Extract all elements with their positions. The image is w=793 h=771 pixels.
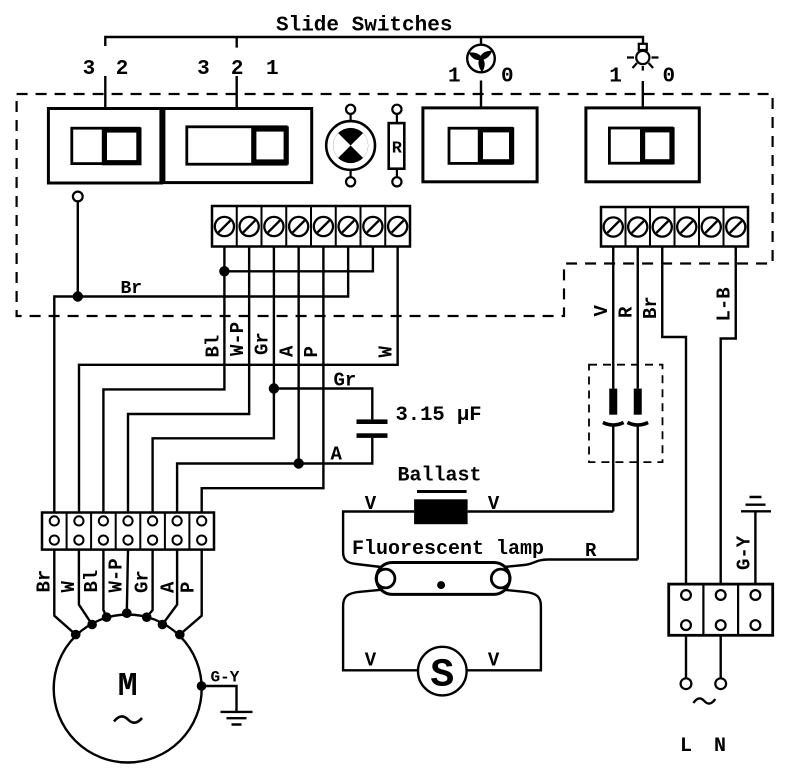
svg-text:A: A: [277, 345, 299, 357]
svg-text:0: 0: [501, 66, 514, 89]
wire: lamp bottom-left to starter: [343, 590, 418, 671]
wire: L-B net (TB2-6 to TB4): [721, 247, 736, 585]
wire: Bl net: [103, 247, 224, 513]
fan icon: [467, 45, 495, 73]
junction: Gr capacitor tap: [269, 383, 279, 393]
wire: A net: [177, 247, 299, 513]
wire: S1 output down to Br: [77, 201, 79, 296]
terminal block TB1: [212, 206, 410, 247]
svg-text:Gr: Gr: [131, 570, 153, 593]
label: fan switch positions 1 0: [448, 66, 514, 89]
slide switch S1: [48, 109, 161, 184]
label: AC supply ~: [693, 698, 715, 703]
motor M1: [54, 615, 202, 763]
node: S1 output open circle: [73, 192, 83, 202]
svg-text:Gr: Gr: [334, 370, 357, 392]
svg-text:W: W: [376, 346, 398, 358]
svg-text:L: L: [680, 735, 692, 758]
terminal strip TB4 (mains): [669, 584, 773, 635]
svg-text:W-P: W-P: [105, 558, 127, 592]
wire: A lead to motor: [162, 550, 177, 625]
screws TB2: [604, 217, 746, 236]
wire: selector bus: [105, 37, 643, 48]
svg-text:Br: Br: [34, 570, 56, 593]
svg-text:0: 0: [662, 66, 675, 89]
svg-text:3: 3: [197, 58, 210, 81]
wire: V net (TB2-1 down): [612, 247, 614, 512]
svg-text:Gr: Gr: [252, 332, 274, 355]
svg-text:2: 2: [116, 58, 129, 81]
node: N open circle: [715, 678, 726, 689]
svg-text:V: V: [591, 305, 613, 317]
svg-text:L-B: L-B: [714, 287, 736, 321]
resistor R: [389, 105, 405, 187]
svg-text:G-Y: G-Y: [211, 669, 240, 687]
wire: S1 selector tick: [104, 76, 106, 109]
svg-text:M: M: [118, 668, 138, 705]
screws TB1: [215, 217, 407, 236]
svg-text:1: 1: [448, 66, 461, 89]
wire: W lead to motor: [79, 550, 92, 625]
svg-text:P: P: [177, 582, 199, 593]
ground: motor earth: [221, 712, 253, 725]
indicator lamp H1: [326, 105, 375, 187]
labels: V V (ballast): [365, 493, 500, 515]
enclosure: hood unit dashed outline: [17, 94, 773, 316]
wire: W-P lead to motor: [127, 550, 128, 614]
junction: A capacitor tap: [293, 458, 303, 468]
wire: G-Y to ground: [202, 686, 237, 712]
label: lamp switch positions 1 0: [609, 66, 675, 89]
wire: ballast left to lamp top-left: [343, 512, 414, 568]
svg-text:Bl: Bl: [81, 570, 103, 593]
starter S: [418, 647, 467, 699]
wire: Bl lead to motor: [103, 550, 106, 618]
svg-text:Bl: Bl: [203, 335, 225, 358]
svg-text:S: S: [430, 654, 454, 699]
wire: Br net (TB2-3 to TB4): [662, 247, 686, 585]
ballast underline: [417, 490, 467, 493]
enclosure: suppressor dashed box: [589, 365, 663, 462]
wire: P lead to motor: [180, 550, 202, 635]
wire: Gr lead to motor: [147, 550, 153, 618]
svg-text:N: N: [714, 735, 726, 758]
svg-text:3: 3: [83, 58, 96, 81]
svg-text:Fluorescent lamp: Fluorescent lamp: [352, 538, 544, 561]
wire: L stub: [685, 635, 687, 678]
svg-text:3.15 µF: 3.15 µF: [396, 404, 482, 427]
svg-text:1: 1: [266, 58, 279, 81]
svg-text:V: V: [365, 493, 377, 515]
wire: W net: [79, 247, 398, 513]
fluorescent lamp FL1: [376, 563, 510, 595]
svg-text:W-P: W-P: [227, 322, 249, 356]
slide switch S3: [423, 108, 537, 182]
wire: Gr tap to C1 top: [274, 389, 372, 420]
label: switch S2 positions 3 2 1: [197, 58, 279, 81]
junction: G-Y motor tap: [197, 681, 207, 691]
wire: Br net (TB1-6 to motor strip): [54, 247, 348, 513]
wire: N stub: [720, 635, 722, 678]
wire: fan switch tick: [480, 81, 482, 108]
svg-text:Br: Br: [121, 279, 143, 299]
svg-text:A: A: [331, 444, 343, 466]
terminal strip TB3 (motor): [42, 513, 214, 550]
capacitor C2: [603, 389, 624, 425]
svg-text:W: W: [58, 581, 80, 593]
labels: V V (starter): [365, 650, 500, 672]
slide switch S2: [162, 109, 312, 183]
wire: Br lead to motor: [54, 550, 75, 635]
capacitor C1 plates: [357, 419, 388, 424]
wire: lamp top-right to R: [504, 560, 638, 568]
junction: Br node: [73, 291, 83, 301]
ballast L1: [414, 499, 468, 524]
wire: bridge TB1-1 to TB1-7: [224, 247, 373, 272]
wire: R net (TB2-2 down): [637, 247, 639, 560]
wire: P net: [202, 247, 324, 513]
svg-text:R: R: [616, 306, 638, 318]
label: switch S1 positions 3 2: [83, 58, 129, 81]
ground: right earth (inverted): [741, 497, 771, 584]
node: L open circle: [681, 678, 692, 689]
wire: W-P net: [128, 247, 249, 513]
wire: ballast right to V: [468, 510, 614, 512]
capacitor C3: [627, 389, 648, 425]
wire: C1 bottom to A tap: [299, 438, 373, 464]
lamp icon: [627, 44, 659, 71]
wire: lamp switch tick: [642, 81, 644, 108]
svg-text:Slide Switches: Slide Switches: [276, 15, 452, 38]
junctions: motor terminals: [71, 608, 185, 639]
svg-text:V: V: [365, 650, 377, 672]
svg-text:R: R: [585, 540, 597, 562]
svg-text:Ballast: Ballast: [398, 465, 482, 488]
wire: S2 selector tick: [235, 76, 237, 109]
terminal block TB2: [601, 207, 748, 247]
svg-text:R: R: [392, 140, 403, 159]
svg-text:G-Y: G-Y: [734, 535, 756, 570]
svg-text:P: P: [301, 346, 323, 357]
wire: Gr net: [153, 247, 274, 513]
svg-text:V: V: [488, 493, 500, 515]
slide switch S4: [586, 108, 699, 182]
junction: TB1-1 bridge dot: [219, 266, 229, 276]
svg-text:V: V: [488, 650, 500, 672]
wire: starter to lamp bottom-right: [467, 590, 541, 671]
svg-text:Br: Br: [640, 296, 662, 319]
svg-text:1: 1: [609, 66, 622, 89]
